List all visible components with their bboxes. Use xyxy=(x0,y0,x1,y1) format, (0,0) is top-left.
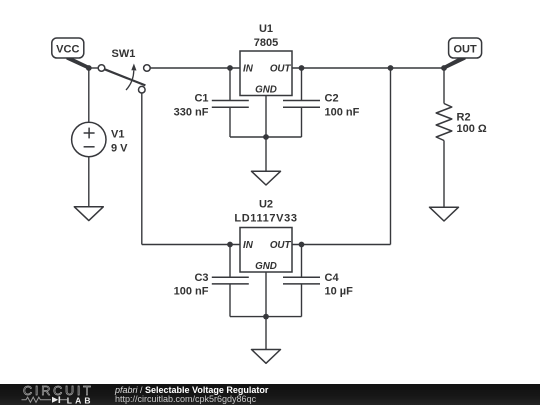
wire switch throw1 to U1 IN xyxy=(150,67,240,69)
node U2 gnd rail xyxy=(263,314,269,320)
resistor R2 xyxy=(436,104,452,141)
junction node dots xyxy=(86,65,447,319)
svg-text:U2: U2 xyxy=(259,199,273,211)
svg-text:100 nF: 100 nF xyxy=(174,285,209,297)
wire C1 bottom lead xyxy=(229,107,231,137)
node riser top xyxy=(388,65,394,71)
wire U1 OUT to OUT node xyxy=(292,67,444,69)
wire C1 top lead xyxy=(229,68,231,101)
node C3/IN2 xyxy=(227,242,233,248)
node C1/IN xyxy=(227,65,233,71)
svg-text:SW1: SW1 xyxy=(112,48,136,60)
wire right riser up to OUT node xyxy=(390,68,392,245)
svg-text:OUT: OUT xyxy=(453,43,477,55)
wire R2 to ground xyxy=(443,141,445,208)
wire U1 bottom rail xyxy=(230,136,302,138)
svg-text:7805: 7805 xyxy=(254,37,278,49)
wire VCC junction down to V1 xyxy=(88,68,90,122)
wire switch throw2 down to U2 xyxy=(141,93,143,245)
wire U1 GND pin xyxy=(265,96,267,138)
wire U2 ground stem xyxy=(265,317,267,350)
svg-text:330 nF: 330 nF xyxy=(174,107,209,119)
wire U1 ground stem xyxy=(265,137,267,171)
ground (R2) xyxy=(430,207,459,221)
svg-text:C4: C4 xyxy=(325,272,340,284)
svg-text:C2: C2 xyxy=(325,93,339,105)
capacitor C4 xyxy=(283,277,320,284)
node OUT flag xyxy=(441,65,447,71)
footer bar xyxy=(0,384,540,405)
svg-text:LAB: LAB xyxy=(67,395,94,405)
ground (V1) xyxy=(74,207,103,221)
svg-text:LD1117V33: LD1117V33 xyxy=(234,213,297,225)
flag VCC xyxy=(52,38,89,69)
wire U2 GND pin xyxy=(265,272,267,317)
source V1 xyxy=(72,122,106,156)
capacitor C2 xyxy=(283,101,320,108)
svg-text:OUT: OUT xyxy=(270,240,292,251)
svg-text:R2: R2 xyxy=(457,112,471,124)
CircuitLab logo xyxy=(0,384,110,405)
svg-text:GND: GND xyxy=(255,85,277,96)
wire C4 top lead xyxy=(301,245,303,278)
node VCC junction xyxy=(86,65,92,71)
svg-text:100 Ω: 100 Ω xyxy=(457,123,487,135)
wire C4 bottom lead xyxy=(301,284,303,317)
wire C2 bottom lead xyxy=(301,107,303,137)
capacitor C1 xyxy=(212,101,249,108)
node C2/OUT xyxy=(299,65,305,71)
wire C3 bottom lead xyxy=(229,284,231,317)
op U2 box xyxy=(240,228,292,273)
svg-text:IN: IN xyxy=(243,64,254,75)
svg-text:C1: C1 xyxy=(194,93,208,105)
wire to U2 IN xyxy=(142,244,240,246)
ground (U1) xyxy=(252,171,281,185)
wire U2 bottom rail xyxy=(230,316,302,318)
ground (U2) xyxy=(252,350,281,364)
svg-text:100 nF: 100 nF xyxy=(325,107,360,119)
svg-text:V1: V1 xyxy=(111,129,124,141)
wire VCC junction to switch common xyxy=(89,67,99,69)
svg-text:U1: U1 xyxy=(259,23,273,35)
node U1 gnd rail xyxy=(263,134,269,140)
wire U2 OUT to right riser xyxy=(292,244,391,246)
switch SW1 xyxy=(98,64,150,93)
svg-text:10 µF: 10 µF xyxy=(325,285,354,297)
node C4/OUT2 xyxy=(299,242,305,248)
capacitor C3 xyxy=(212,277,249,284)
svg-text:OUT: OUT xyxy=(270,64,292,75)
svg-text:IN: IN xyxy=(243,240,254,251)
flag OUT xyxy=(444,38,482,69)
svg-text:9 V: 9 V xyxy=(111,143,128,155)
wire OUT node down to R2 xyxy=(443,68,445,104)
svg-text:GND: GND xyxy=(255,261,277,272)
op U1 box xyxy=(240,51,292,96)
wire C3 top lead xyxy=(229,245,231,278)
wire C2 top lead xyxy=(301,68,303,101)
wire V1 to ground xyxy=(88,157,90,207)
svg-text:VCC: VCC xyxy=(56,43,79,55)
svg-text:C3: C3 xyxy=(194,272,208,284)
